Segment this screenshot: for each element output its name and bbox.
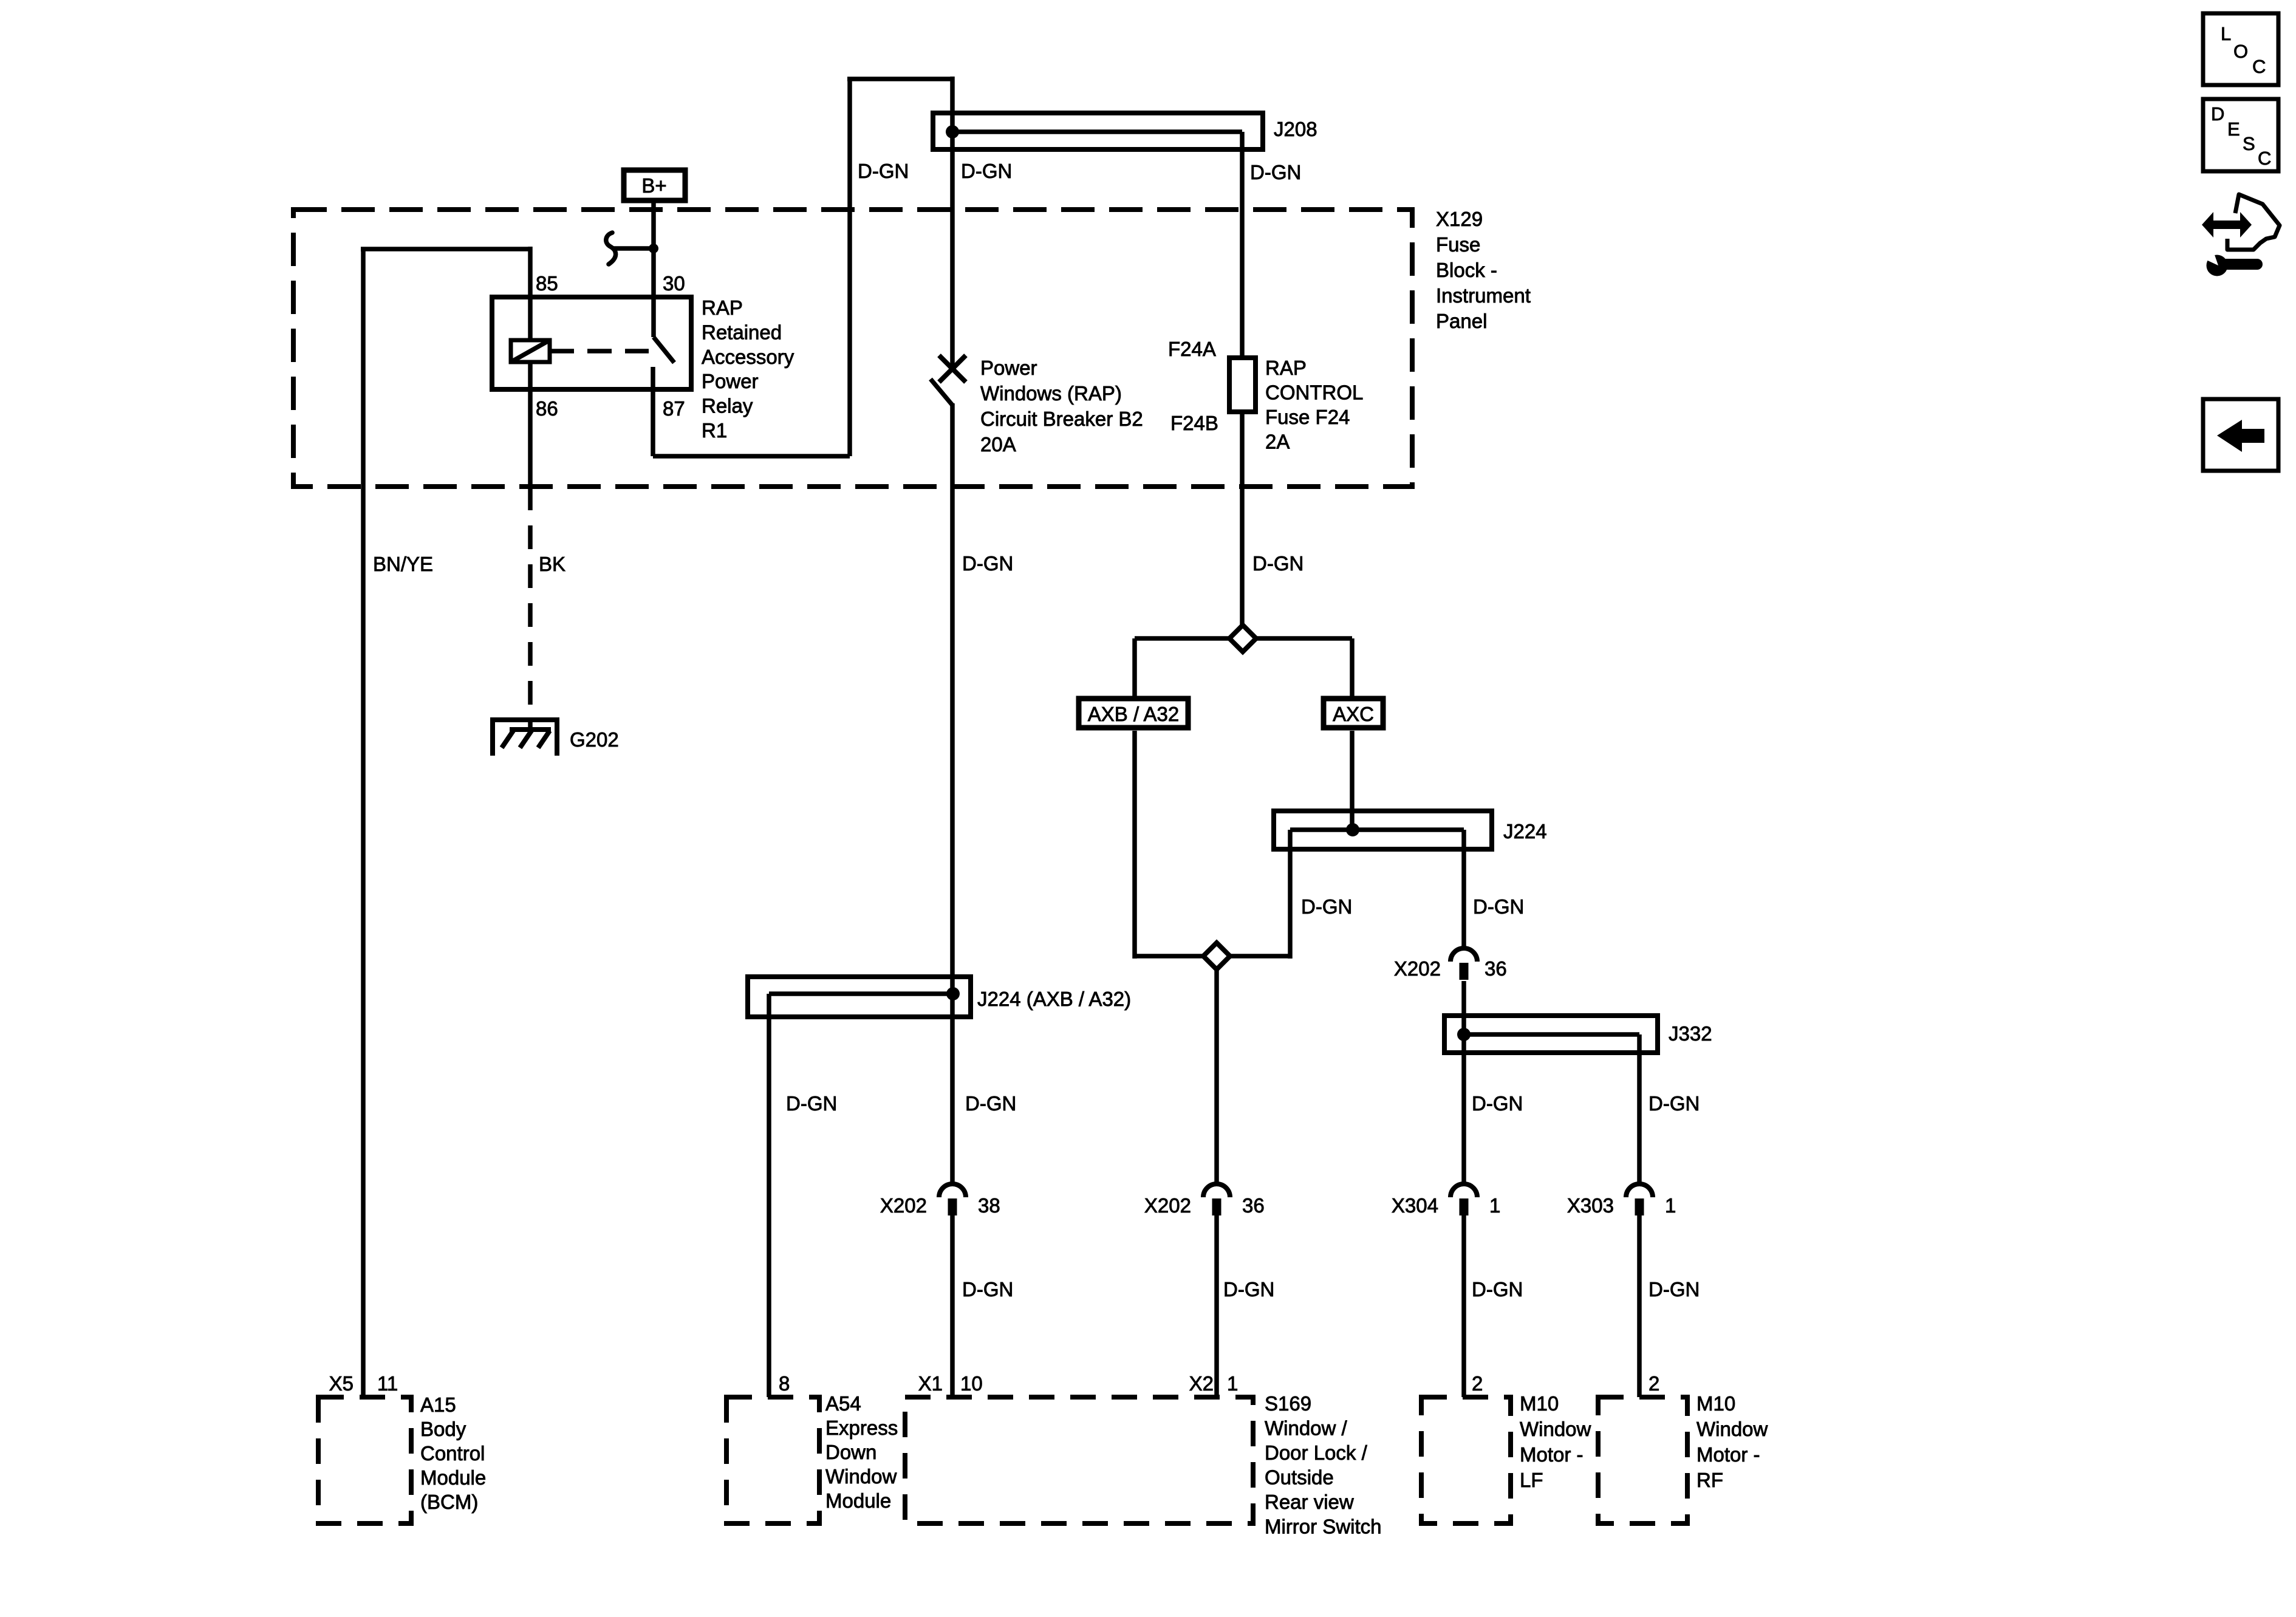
svg-text:AXB / A32: AXB / A32 [1088,703,1179,725]
svg-text:AXC: AXC [1333,703,1374,725]
svg-text:D-GN: D-GN [965,1092,1016,1115]
svg-text:X202: X202 [880,1194,927,1217]
svg-text:Mirror Switch: Mirror Switch [1265,1516,1382,1538]
svg-text:Fuse: Fuse [1436,233,1480,256]
svg-text:S169: S169 [1265,1392,1311,1415]
svg-text:38: 38 [978,1194,1000,1217]
wire branch horizontal at diamond junction [1135,636,1352,641]
svg-text:Retained: Retained [702,321,782,343]
svg-text:RAP: RAP [1265,357,1307,379]
wire relay coil to pin 86 (BK solid segment) [528,362,533,487]
svg-text:86: 86 [536,397,558,420]
svg-text:F24B: F24B [1170,412,1218,434]
wire X304 to M10 window motor LF pin 2 [1461,1215,1466,1397]
ground G202 symbol [490,717,559,722]
svg-text:Power: Power [702,370,759,392]
wire J224 (AXB/A32) inner bus line [769,991,953,996]
net label box AXC [1324,699,1383,728]
svg-text:R1: R1 [702,419,727,442]
svg-text:Panel: Panel [1436,310,1487,332]
svg-text:Fuse F24: Fuse F24 [1265,406,1350,428]
back navigation arrow box icon [2203,399,2278,471]
svg-text:Accessory: Accessory [702,346,794,368]
svg-text:M10: M10 [1696,1392,1735,1415]
svg-text:8: 8 [779,1372,790,1395]
junction dot at B+ feed [649,244,658,253]
svg-text:L: L [2221,23,2231,44]
fusible link clip symbol at B+ feed [606,233,616,264]
net label box AXB / A32 [1079,699,1188,728]
svg-text:BN/YE: BN/YE [373,553,433,575]
splice pack J332 connector bar [1444,1016,1658,1053]
svg-text:J224 (AXB / A32): J224 (AXB / A32) [977,988,1131,1010]
svg-text:36: 36 [1485,957,1507,980]
wire horizontal branch to relay pin 85 [361,247,530,251]
svg-text:Window: Window [1696,1418,1768,1440]
svg-text:D-GN: D-GN [962,552,1013,575]
svg-text:A54: A54 [825,1392,861,1415]
wire X202-36 to J332 splice pack [1461,981,1466,1034]
svg-text:B+: B+ [641,174,666,197]
in-line connector X202 pin 36 [1203,1184,1230,1197]
svg-text:Motor -: Motor - [1696,1443,1760,1466]
wire J208 inner bus line [952,129,1242,134]
svg-text:D-GN: D-GN [961,160,1012,182]
wire J332 inner bus line [1464,1032,1639,1037]
junction dot in J224 [1346,823,1359,836]
in-line connector X303 pin 1 [1626,1184,1653,1197]
svg-text:D-GN: D-GN [1649,1092,1700,1115]
wire J224 right exit to X202-36 upper connector [1461,830,1466,949]
svg-text:Circuit Breaker B2: Circuit Breaker B2 [980,408,1143,430]
svg-text:C: C [2258,148,2271,169]
wire J224 left exit down [1288,830,1293,959]
wire J224 inner bus line [1290,827,1464,832]
splice pack J224 connector bar [1274,811,1492,849]
wire horizontal into second diamond left arm [1135,954,1206,959]
svg-text:LF: LF [1520,1469,1543,1491]
svg-text:X1: X1 [918,1372,943,1395]
svg-text:Module: Module [420,1466,486,1489]
junction dot in J208 [946,125,959,138]
splice diamond junction below fuse F24 [1229,625,1256,652]
B+ power feed box [624,170,685,200]
svg-text:J332: J332 [1669,1022,1712,1045]
wire J332 right exit to X303 connector [1637,1034,1642,1185]
svg-text:A15: A15 [420,1393,456,1416]
svg-text:36: 36 [1242,1194,1265,1217]
svg-text:C: C [2252,56,2266,77]
svg-text:Down: Down [825,1441,876,1463]
wire below AXB/A32 box down [1132,731,1137,959]
module A15 body control module dashed box [318,1397,411,1523]
module A54 express down window module dashed box [726,1397,819,1523]
wire loop top horizontal [847,77,952,81]
wire J332 left exit to X304 connector [1461,1034,1466,1185]
svg-text:X129: X129 [1436,208,1483,230]
X129 fuse block instrument panel dashed outline [293,210,1412,487]
svg-text:D-GN: D-GN [1301,895,1352,918]
svg-text:2: 2 [1472,1372,1483,1395]
svg-text:Module: Module [825,1489,891,1512]
wire left branch down to AXB/A32 label box [1132,638,1137,696]
module M10 window motor LF dashed box [1421,1397,1511,1523]
splice pack J224 (AXB / A32) connector bar [748,977,971,1017]
svg-text:D-GN: D-GN [1252,552,1303,575]
svg-text:CONTROL: CONTROL [1265,381,1363,404]
svg-text:D-GN: D-GN [1223,1278,1274,1301]
wire horizontal into second diamond right arm [1228,954,1290,959]
svg-text:30: 30 [663,272,685,295]
wire below AXC box to J224 splice pack [1350,731,1355,830]
wire relay pin 85 from branch to coil [528,247,533,340]
relay switch blade pin 30 to 87 [654,337,674,363]
circuit breaker B2 blade [931,379,952,405]
relay R1 RAP retained accessory power relay box [492,297,691,389]
svg-text:O: O [2233,41,2248,62]
svg-text:Outside: Outside [1265,1466,1334,1489]
wire below second diamond to X202-36 and S169 pin X2 1 [1214,968,1219,1185]
svg-text:2A: 2A [1265,431,1290,453]
svg-text:Relay: Relay [702,395,753,417]
wire right branch down to AXC label box [1350,638,1355,696]
svg-text:G202: G202 [570,728,619,751]
svg-text:Windows (RAP): Windows (RAP) [980,382,1122,405]
svg-text:Window /: Window / [1265,1417,1348,1440]
svg-text:Motor -: Motor - [1520,1443,1584,1466]
svg-text:X303: X303 [1567,1194,1614,1217]
svg-text:Control: Control [420,1442,485,1465]
svg-text:Power: Power [980,357,1037,379]
in-line connector X202 pin 38 [939,1184,966,1197]
svg-text:RF: RF [1696,1469,1723,1491]
svg-text:Door Lock /: Door Lock / [1265,1441,1368,1464]
splice diamond junction lower [1203,943,1230,969]
junction dot in J224 (AXB / A32) [946,987,960,1000]
wrench icon [2222,259,2263,270]
svg-text:87: 87 [663,397,685,420]
svg-text:J208: J208 [1274,118,1317,140]
wire left exit of J224 (AXB/A32) to A54 pin 8 [767,994,771,1397]
svg-text:11: 11 [377,1372,398,1395]
relay coil [511,340,550,362]
svg-text:D: D [2211,103,2224,125]
svg-text:2: 2 [1649,1372,1659,1395]
wire loop left vertical up [847,79,852,456]
wire pin 87 horizontal run [653,454,850,459]
circuit breaker B2 X contact mark [939,355,966,382]
wire D-GN X202-38 to S169 pin X1 10 [950,1215,955,1397]
splice pack J208 connector bar [933,113,1263,149]
LOC navigation box icon [2203,13,2278,85]
wire D-GN from J208 to fuse F24 and diamond junction [1240,132,1245,626]
svg-text:BK: BK [539,553,565,575]
wire D-GN main vertical through J208 to circuit breaker [950,77,955,371]
svg-text:D-GN: D-GN [1472,1092,1523,1115]
DESC navigation box icon [2203,99,2278,171]
svg-text:1: 1 [1489,1194,1500,1217]
wire D-GN below circuit breaker through J224 (AXB/A32) bar to X202-38 [950,403,955,1185]
svg-text:D-GN: D-GN [1649,1278,1700,1301]
junction dot in J332 [1457,1028,1471,1041]
svg-text:X5: X5 [329,1372,354,1395]
svg-text:D-GN: D-GN [1472,1278,1523,1301]
svg-text:X202: X202 [1394,957,1441,980]
svg-text:X2: X2 [1189,1372,1214,1395]
svg-text:S: S [2243,133,2255,154]
wire X303 to M10 window motor RF pin 2 [1637,1215,1642,1397]
svg-text:Instrument: Instrument [1436,284,1531,307]
svg-text:Body: Body [420,1418,466,1440]
switch S169 window door lock outside rear view mirror switch dashed box [905,1397,1253,1523]
svg-text:Window: Window [825,1465,897,1488]
svg-text:D-GN: D-GN [858,160,909,182]
svg-text:D-GN: D-GN [962,1278,1013,1301]
wire relay pin 87 stub [651,367,655,456]
svg-text:D-GN: D-GN [1473,895,1524,918]
fuse F24 RAP CONTROL [1229,358,1256,412]
wire BK dashed segment to ground G202 [528,487,533,730]
svg-text:X202: X202 [1144,1194,1191,1217]
svg-text:Express: Express [825,1417,898,1439]
svg-text:10: 10 [960,1372,983,1395]
svg-text:J224: J224 [1503,820,1547,843]
svg-text:D-GN: D-GN [1250,161,1301,183]
in-line connector X202 pin 36 upper [1450,948,1477,962]
svg-text:1: 1 [1227,1372,1238,1395]
wire BN/YE from relay branch to BCM X5-11 [361,249,366,1397]
svg-text:F24A: F24A [1168,338,1216,360]
module M10 window motor RF dashed box [1598,1397,1687,1523]
svg-text:1: 1 [1665,1194,1676,1217]
svg-text:20A: 20A [980,433,1016,456]
svg-text:X304: X304 [1392,1194,1438,1217]
relay actuation dashed link [550,349,649,354]
svg-text:85: 85 [536,272,558,295]
svg-text:(BCM): (BCM) [420,1491,478,1513]
vehicle with double arrow icon [2227,194,2280,250]
svg-text:Window: Window [1520,1418,1591,1440]
svg-text:Block -: Block - [1436,259,1497,281]
svg-text:M10: M10 [1520,1392,1559,1415]
in-line connector X304 pin 1 [1450,1184,1477,1197]
svg-text:E: E [2227,118,2240,140]
svg-text:Rear view: Rear view [1265,1491,1354,1513]
wire B+ to relay pin 30 switch contact [651,200,656,337]
svg-text:D-GN: D-GN [786,1092,837,1115]
svg-text:RAP: RAP [702,296,743,319]
